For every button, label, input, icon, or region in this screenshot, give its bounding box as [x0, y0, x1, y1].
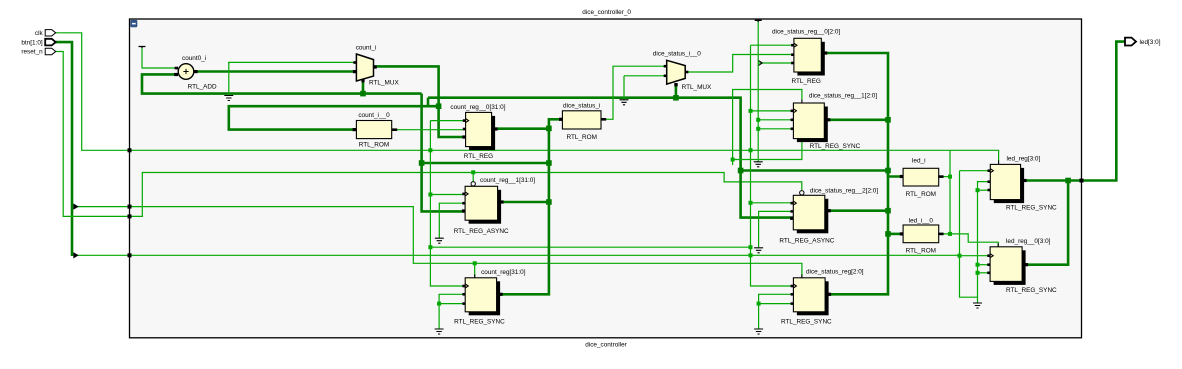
ground dice_status_reg — [754, 329, 763, 334]
wire const tap dice_status_reg__1 S — [758, 128, 793, 130]
svg-text:RTL_ROM: RTL_ROM — [906, 191, 936, 198]
wire led_reg__0 C — [960, 255, 991, 257]
node junction x950 y176.6 — [948, 175, 952, 179]
wire dice_status_reg__0 out to right bus — [824, 53, 888, 294]
wire reset_n from port — [56, 52, 802, 217]
wire dice_status_reg__1 out — [827, 119, 888, 122]
register RTL_REG_SYNC dice_status_reg__1 — [793, 100, 827, 143]
wire dice_status_reg S pin from gnd — [759, 294, 794, 329]
constant T bar left — [139, 47, 146, 49]
wire count_reg__0 C pin h — [430, 120, 465, 122]
wire btn tap2 — [76, 254, 960, 256]
svg-text:RTL_REG: RTL_REG — [464, 153, 493, 160]
svg-text:RTL_ROM: RTL_ROM — [906, 248, 936, 255]
arrowhead const to reg pin — [759, 61, 763, 66]
node bus junction y202 — [546, 199, 552, 205]
node junction x977.5 y190.2 — [976, 188, 980, 192]
wire led_i__0 out to led_reg__0 top pin — [938, 234, 998, 247]
node junction x750.5 y110.9 — [749, 109, 753, 113]
register RTL_REG_ASYNC count_reg__1 — [465, 182, 501, 224]
node junction x438.6 y106.2 — [436, 103, 442, 109]
pins RTL_ROM dice_status_i — [559, 118, 606, 121]
wire rom count_i__0 out to reg D — [392, 129, 466, 131]
pins RTL_REG count_reg__0 — [462, 119, 497, 138]
svg-text:reset_n: reset_n — [21, 49, 43, 56]
register RTL_REG_SYNC led_reg__0 — [990, 243, 1026, 285]
node junction mux select y93.6 — [360, 91, 366, 97]
wire dice_status_reg R pin — [759, 303, 794, 305]
wire jog x428 — [427, 98, 430, 107]
pins RTL_MUX dice_status_i__0 — [664, 65, 689, 87]
wire count_reg__0 C — [430, 121, 465, 286]
ground count_reg — [435, 329, 444, 334]
wire count feedback thick y93.6 — [142, 74, 422, 93]
wire thick x421.6 to bus y163 — [422, 162, 549, 165]
node junction x758.2 y128.8 — [756, 127, 760, 131]
svg-text:dice_status_i__0: dice_status_i__0 — [653, 50, 701, 57]
wire led_reg C — [960, 170, 991, 172]
node thick junction x740.6 y170.5 — [738, 168, 744, 174]
svg-text:dice_status_reg__0[2:0]: dice_status_reg__0[2:0] — [772, 28, 840, 35]
svg-text:RTL_REG_SYNC: RTL_REG_SYNC — [810, 143, 861, 150]
node junction x430 y247.2 — [428, 245, 432, 249]
wire count thick y97.7 to dice column — [428, 98, 793, 218]
svg-text:count0_i: count0_i — [182, 55, 206, 62]
wire C pin dice_status_reg__2 — [751, 202, 794, 204]
pins RTL_REG dice_status_reg__0 — [791, 44, 827, 64]
pins RTL_ROM led_i__0 — [900, 232, 944, 235]
wire C pin dice_status_reg__1 — [751, 110, 794, 112]
node junction x750.5 y202.8 — [749, 201, 753, 205]
svg-text:led_reg[3:0]: led_reg[3:0] — [1007, 155, 1041, 162]
node junction dice mux select — [673, 95, 679, 101]
svg-text:count_i__0: count_i__0 — [358, 112, 390, 119]
pins RTL_REG_SYNC dice_status_reg__1 — [791, 110, 831, 131]
svg-text:RTL_REG_ASYNC: RTL_REG_ASYNC — [779, 238, 834, 245]
pins RTL_REG_SYNC led_reg__0 — [987, 254, 1028, 274]
wire btn tap1 branch to count_reg top pin — [474, 263, 476, 278]
module dice_controller_0 frame — [130, 9, 1082, 348]
wire led_reg__0 S — [978, 272, 991, 274]
wire bus x548.9 — [500, 128, 549, 294]
ground dice mux — [620, 100, 629, 105]
svg-text:dice_status_reg[2:0]: dice_status_reg[2:0] — [806, 269, 864, 276]
wire btn tap1 — [76, 207, 802, 278]
node junction clk x430 y194.5 — [428, 193, 432, 197]
node junction clk x430 — [428, 148, 432, 152]
svg-text:led_i: led_i — [912, 158, 926, 165]
register RTL_REG_ASYNC dice_status_reg__2 — [793, 191, 828, 234]
wire branch to count_i__0 rom input — [229, 106, 439, 129]
constant T bar right — [755, 20, 762, 22]
wire led_reg S pin — [978, 189, 991, 191]
frame pin tick led out — [1080, 179, 1084, 183]
wire led C vertical v2 — [960, 171, 978, 298]
svg-text:RTL_MUX: RTL_MUX — [682, 84, 712, 91]
svg-text:RTL_REG_SYNC: RTL_REG_SYNC — [1006, 287, 1057, 294]
svg-text:led_reg__0[3:0]: led_reg__0[3:0] — [1006, 238, 1051, 245]
rom RTL_ROM led_i — [903, 168, 939, 186]
svg-text:clk: clk — [35, 30, 44, 37]
register RTL_REG_SYNC led_reg — [990, 161, 1024, 204]
arrowhead btn tap2 — [73, 252, 78, 258]
node right bus junction y170.5 — [885, 168, 891, 174]
register RTL_REG dice_status_reg__0 — [794, 38, 825, 75]
wire gnd stem near adder — [228, 62, 230, 95]
wire dice mux in2 from gnd — [624, 75, 667, 77]
svg-text:led[3:0]: led[3:0] — [1140, 39, 1161, 46]
wire clk from port — [56, 33, 999, 161]
register RTL_REG_SYNC dice_status_reg — [793, 274, 828, 315]
wire dice mux select — [675, 84, 678, 98]
frame pin tick clk — [128, 148, 132, 152]
svg-text:RTL_MUX: RTL_MUX — [369, 79, 399, 86]
svg-text:dice_status_reg__1[2:0]: dice_status_reg__1[2:0] — [809, 93, 877, 100]
node thick junction x421.6 y163 — [419, 160, 425, 166]
ground near adder — [224, 96, 233, 101]
wire mux in1 from gnd — [229, 62, 357, 64]
port led[3:0] — [1125, 38, 1136, 46]
register RTL_REG count_reg__0 — [466, 112, 496, 150]
svg-text:count_i: count_i — [356, 45, 377, 52]
rom RTL_ROM led_i__0 — [903, 225, 939, 243]
wire count_reg R pin — [439, 303, 465, 305]
node bus junction y128.4 — [546, 126, 552, 132]
node bus junction y163 — [546, 160, 552, 166]
wire clk cross branch y247 — [430, 246, 750, 248]
wire dice_status_reg__2 D from gnd — [759, 211, 794, 247]
rom RTL_ROM dice_status_i — [562, 111, 601, 129]
svg-text:RTL_REG_SYNC: RTL_REG_SYNC — [1006, 205, 1057, 212]
wire btn bus from port down — [56, 42, 72, 256]
svg-text:dice_controller_0: dice_controller_0 — [582, 9, 631, 16]
ground const net — [754, 162, 763, 167]
wire adder out to mux in2 — [194, 70, 356, 73]
wire thick vertical x421.6 to count_reg__1 D — [422, 94, 466, 212]
ground led area — [973, 303, 982, 308]
wire count_reg__1 out to bus — [501, 201, 549, 204]
svg-text:RTL_ROM: RTL_ROM — [359, 142, 389, 149]
svg-text:count_reg__0[31:0]: count_reg__0[31:0] — [450, 104, 505, 111]
port reset_n — [45, 48, 56, 55]
svg-text:dice_controller: dice_controller — [585, 342, 627, 349]
wire mux count_i select — [362, 80, 365, 94]
node junction x959.5 y255.7 — [958, 254, 962, 258]
wire right bus to led_i__0 — [888, 233, 903, 236]
wire dice_status_reg__2 out — [828, 209, 888, 212]
wire count_reg__1 D pin from gnd — [439, 203, 465, 238]
svg-text:count_reg__1[31:0]: count_reg__1[31:0] — [480, 177, 535, 184]
pins RTL_REG_SYNC count_reg — [462, 285, 502, 305]
node junction x750.5 y150.3 — [749, 148, 753, 152]
port btn[1:0] — [45, 39, 56, 46]
pins RTL_ROM count_i__0 — [353, 128, 398, 131]
node right bus junction y119.8 — [885, 117, 891, 123]
wire count_reg__0 out to bus — [495, 127, 549, 130]
wire count_reg__1 C pin — [430, 194, 465, 196]
node junction x977.5 y264.7 — [976, 263, 980, 267]
wire thick y170.5 to right bus — [741, 171, 904, 177]
adder RTL_ADD count0_i — [178, 64, 194, 80]
wire mux count_i output loop — [373, 66, 465, 137]
svg-text:RTL_ADD: RTL_ADD — [188, 83, 217, 90]
node junction x439.1 y303.6 — [437, 302, 441, 306]
node right bus junction y210.7 — [885, 208, 891, 214]
node junction x732.6 y159.5 — [731, 158, 735, 162]
node junction at count_reg top pin — [473, 261, 477, 265]
wire led loop v1 — [949, 150, 951, 234]
wire bus top to dice rom — [549, 119, 560, 128]
node reset junction at count_reg__1 — [471, 170, 475, 174]
arrowhead btn tap1 — [73, 203, 78, 209]
svg-text:RTL_REG_SYNC: RTL_REG_SYNC — [781, 319, 832, 326]
pins RTL_ADD count0_i — [174, 67, 197, 76]
ground dice_status_reg__2 — [754, 248, 763, 253]
node junction x750.5 y255.3 — [749, 253, 753, 257]
wire dice rom out to mux in1 — [601, 66, 667, 119]
node junction x977.5 y272.8 — [976, 271, 980, 275]
svg-text:RTL_REG_SYNC: RTL_REG_SYNC — [454, 319, 505, 326]
node junction x1068.1 y180.5 — [1065, 178, 1071, 184]
node right bus junction y233.9 — [885, 231, 891, 237]
port clk — [45, 30, 56, 36]
node junction x758.6 y303.6 — [757, 302, 761, 306]
node junction x758.2 y119.8 — [756, 118, 760, 122]
wire led_i out — [938, 176, 950, 178]
pins RTL_REG_SYNC dice_status_reg — [791, 285, 832, 305]
pins RTL_REG_ASYNC dice_status_reg__2 — [790, 202, 831, 220]
frame pin tick reset — [128, 214, 132, 218]
ground count_reg__1 — [435, 238, 444, 243]
wire led_reg__0 D — [978, 264, 991, 266]
svg-text:btn[1:0]: btn[1:0] — [21, 39, 43, 46]
wire dice_status_reg__1 bottom pin — [733, 142, 802, 160]
wire const tap dice_status_reg__1 D — [758, 119, 793, 121]
rom RTL_ROM count_i__0 — [356, 121, 391, 139]
wire dice mux out — [685, 55, 794, 73]
node junction x950 y233.9 — [948, 232, 952, 236]
wire led_reg out to port led — [1024, 42, 1125, 181]
wire const tap dice_status_reg__0 pin3 — [758, 62, 794, 64]
wire C pin dice_status_reg__0 — [751, 44, 794, 46]
wire const net vertical x758.2 — [757, 21, 759, 162]
wire led_reg__0 out joins — [1025, 181, 1068, 265]
mux RTL_MUX dice_status_i__0 — [667, 60, 686, 84]
svg-text:RTL_REG_ASYNC: RTL_REG_ASYNC — [454, 228, 509, 235]
frame pin tick btn tap2 — [128, 253, 132, 257]
svg-text:dice_status_i: dice_status_i — [563, 103, 600, 110]
mux RTL_MUX count_i — [356, 54, 373, 81]
pins RTL_MUX count_i — [353, 61, 377, 82]
wire adder in1 from const — [142, 48, 178, 68]
wire gnd stem dice mux — [623, 76, 625, 100]
pins RTL_ROM led_i — [900, 175, 944, 178]
wire reset tap to count_reg__1 bubble — [472, 172, 474, 183]
svg-text:count_reg[31:0]: count_reg[31:0] — [481, 269, 526, 276]
node junction x750.5 y247.2 — [749, 245, 753, 249]
wire led_reg D from v977 — [978, 182, 991, 303]
register RTL_REG_SYNC count_reg — [465, 274, 500, 315]
svg-text:dice_status_reg__2[2:0]: dice_status_reg__2[2:0] — [810, 188, 878, 195]
wire C net vertical x750.5 — [751, 45, 794, 286]
pins RTL_REG_ASYNC count_reg__1 — [462, 193, 504, 213]
svg-text:led_i__0: led_i__0 — [909, 218, 934, 225]
svg-text:RTL_REG: RTL_REG — [792, 78, 821, 85]
svg-text:RTL_ROM: RTL_ROM — [566, 134, 596, 141]
pins RTL_REG_SYNC led_reg — [988, 169, 1027, 191]
frame pin tick btn tap1 — [128, 205, 132, 209]
wire count_reg S pin from gnd — [439, 294, 465, 329]
wire dice_status_reg__1 top pin loop — [733, 90, 802, 166]
